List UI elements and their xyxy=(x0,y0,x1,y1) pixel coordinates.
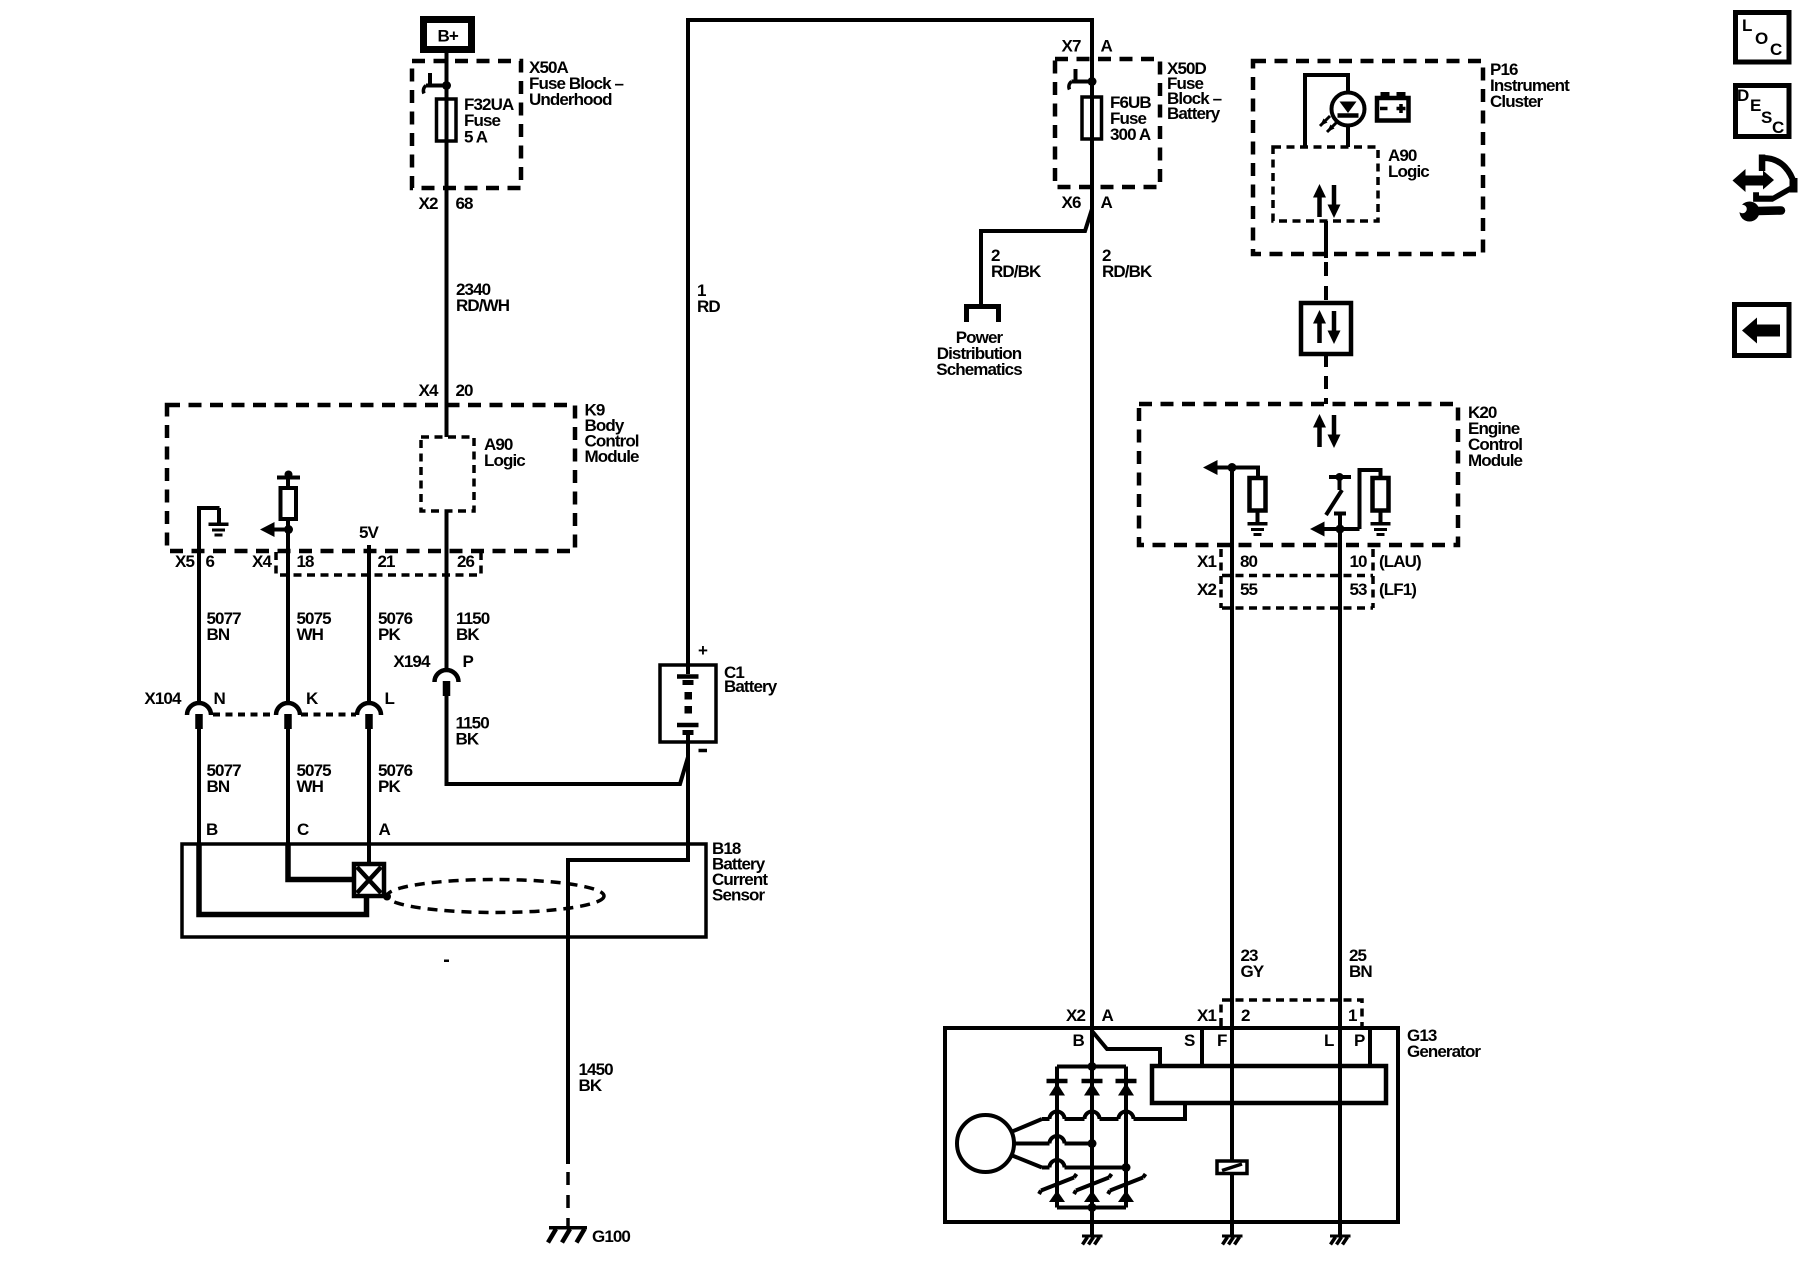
avalanche diode D6 (right lower) xyxy=(1108,1174,1146,1202)
svg-text:L: L xyxy=(385,689,395,708)
resistor inside K9 (pin 18 pull-up) xyxy=(286,477,290,530)
svg-text:BK: BK xyxy=(456,730,480,749)
bridge verticals xyxy=(1055,1067,1059,1208)
svg-text:A: A xyxy=(1102,1006,1114,1025)
ellipse end blob xyxy=(383,893,391,901)
svg-text:X6: X6 xyxy=(1062,193,1081,212)
svg-text:Generator: Generator xyxy=(1407,1042,1481,1061)
svg-text:5 A: 5 A xyxy=(464,128,488,147)
sensor element X box xyxy=(354,864,384,896)
svg-text:18: 18 xyxy=(297,552,315,571)
svg-text:Sensor: Sensor xyxy=(712,886,766,905)
fuse F32UA xyxy=(437,99,457,141)
rectifier diode D3 (right upper) xyxy=(1116,1081,1137,1096)
svg-text:PK: PK xyxy=(378,777,401,796)
svg-text:Underhood: Underhood xyxy=(529,90,612,109)
svg-text:X1: X1 xyxy=(1197,552,1216,571)
svg-text:300 A: 300 A xyxy=(1110,125,1151,144)
svg-text:6: 6 xyxy=(206,552,215,571)
svg-text:A: A xyxy=(1101,37,1113,56)
wire 1150 BK upper xyxy=(445,575,449,670)
svg-text:X2: X2 xyxy=(1066,1006,1085,1025)
reroute arrows + wrench icon xyxy=(1730,155,1798,222)
svg-text:RD/BK: RD/BK xyxy=(1102,262,1153,281)
stator winding circle xyxy=(957,1115,1014,1172)
wire 1150 BK lower to battery minus xyxy=(447,695,689,784)
dashed connector tie line X104 xyxy=(213,713,356,717)
svg-text:O: O xyxy=(1755,29,1768,48)
fuse block X50A dashed box xyxy=(412,61,521,188)
B- lead to case ground xyxy=(1090,1208,1094,1226)
svg-text:X4: X4 xyxy=(419,381,439,400)
svg-text:B+: B+ xyxy=(438,27,459,46)
avalanche diode D5 (middle lower) xyxy=(1074,1174,1112,1202)
svg-text:WH: WH xyxy=(297,777,324,796)
svg-text:X2: X2 xyxy=(419,194,438,213)
branch wire to power distribution xyxy=(981,209,1092,305)
svg-text:GY: GY xyxy=(1241,962,1265,981)
rectifier diode D1 (left upper) xyxy=(1047,1081,1068,1096)
svg-text:5V: 5V xyxy=(359,523,380,542)
svg-text:10: 10 xyxy=(1350,552,1368,571)
connector X104 cavity L xyxy=(357,703,381,729)
fuse F6UB xyxy=(1082,97,1102,139)
svg-text:L: L xyxy=(1742,16,1752,35)
dashed sensing ellipse xyxy=(387,880,604,913)
stray mark xyxy=(444,960,449,963)
svg-text:20: 20 xyxy=(456,381,474,400)
svg-text:RD: RD xyxy=(697,297,720,316)
A90 Logic dashed box (BCM) xyxy=(421,437,474,511)
wire 5075 WH upper xyxy=(286,530,290,704)
svg-text:C: C xyxy=(1772,118,1784,137)
BCM bottom connector row xyxy=(276,552,481,575)
svg-text:F: F xyxy=(1217,1031,1227,1050)
svg-text:21: 21 xyxy=(378,552,396,571)
svg-text:S: S xyxy=(1184,1031,1195,1050)
svg-text:Module: Module xyxy=(1468,451,1523,470)
svg-text:C: C xyxy=(1770,40,1782,59)
svg-text:P: P xyxy=(463,652,474,671)
svg-text:(LF1): (LF1) xyxy=(1379,580,1416,599)
A90 Logic dashed box (cluster) xyxy=(1273,147,1378,221)
svg-text:2: 2 xyxy=(1241,1006,1250,1025)
svg-text:Module: Module xyxy=(585,447,640,466)
arrow to left at pin 18 node xyxy=(260,522,275,537)
generator box xyxy=(945,1028,1398,1222)
svg-text:+: + xyxy=(698,641,708,660)
svg-text:Battery: Battery xyxy=(724,677,778,696)
B+ terminal box xyxy=(424,20,472,50)
K20 right branch: driver switch, resistor to ground xyxy=(1329,475,1351,479)
L wire through regulator to ground xyxy=(1338,1028,1342,1225)
ground G100 xyxy=(548,1228,587,1243)
svg-text:80: 80 xyxy=(1240,552,1258,571)
K9 Body Control Module dashed box xyxy=(167,405,575,551)
wire 5077 BN upper xyxy=(197,551,201,703)
F wire through regulator to field coil and ground xyxy=(1230,1028,1234,1161)
fuse block X50D dashed box xyxy=(1055,59,1160,187)
field winding xyxy=(1217,1161,1247,1174)
svg-text:X194: X194 xyxy=(393,652,431,671)
P terminal stub xyxy=(1368,1028,1372,1066)
battery telltale icon xyxy=(1377,98,1409,121)
svg-text:BN: BN xyxy=(207,625,230,644)
B terminal branch to regulator xyxy=(1092,1031,1160,1066)
svg-text:55: 55 xyxy=(1240,580,1258,599)
svg-text:BK: BK xyxy=(456,625,480,644)
LOC button xyxy=(1736,13,1790,63)
serial data wire to K20 xyxy=(1324,354,1328,404)
voltage regulator block xyxy=(1152,1066,1386,1103)
back button xyxy=(1735,305,1790,356)
serial data gateway box xyxy=(1301,303,1351,354)
S terminal stub xyxy=(1200,1028,1204,1066)
K20 left branch: arrow, node, resistor to ground xyxy=(1203,460,1218,475)
off-page bracket xyxy=(967,307,999,323)
svg-text:Logic: Logic xyxy=(1388,162,1429,181)
svg-text:(LAU): (LAU) xyxy=(1379,552,1421,571)
battery C1 xyxy=(660,665,716,742)
svg-text:S: S xyxy=(1761,108,1772,127)
svg-text:WH: WH xyxy=(297,625,324,644)
wire B+ to BCM A90 (2340 RD/WH) xyxy=(445,53,449,437)
wire 5076 PK upper xyxy=(367,545,371,703)
svg-text:Logic: Logic xyxy=(484,451,525,470)
svg-text:X2: X2 xyxy=(1197,580,1216,599)
wires 5077/5075/5076 lower xyxy=(197,728,201,844)
rectifier diode D2 (middle upper) xyxy=(1082,1081,1103,1096)
serial data wire down xyxy=(1324,221,1328,258)
svg-text:Schematics: Schematics xyxy=(936,360,1022,379)
svg-text:1: 1 xyxy=(1348,1006,1357,1025)
svg-text:X104: X104 xyxy=(144,689,182,708)
svg-text:D: D xyxy=(1737,86,1749,105)
svg-text:X5: X5 xyxy=(175,552,194,571)
ECM connector rows X1/X2 xyxy=(1221,549,1373,608)
wire 1 RD : B+ bus xyxy=(688,20,1092,1028)
svg-text:BK: BK xyxy=(579,1076,603,1095)
svg-text:N: N xyxy=(214,689,226,708)
svg-text:X7: X7 xyxy=(1062,37,1081,56)
svg-text:68: 68 xyxy=(456,194,474,213)
serial arrows inside K20 xyxy=(1313,414,1341,448)
svg-text:26: 26 xyxy=(457,552,475,571)
cluster internal wires xyxy=(1305,75,1348,147)
serial arrows inside cluster A90 xyxy=(1313,184,1341,218)
battery minus wire through B18 xyxy=(568,742,688,1164)
B18 Battery Current Sensor box xyxy=(182,844,706,937)
stator phase 1 to regulator S sense xyxy=(1011,1119,1042,1132)
wire 25 BN xyxy=(1338,529,1342,1028)
stator phase 2 xyxy=(1014,1142,1092,1146)
svg-text:RD/WH: RD/WH xyxy=(456,296,510,315)
stator phase 3 xyxy=(1011,1155,1042,1168)
svg-text:X1: X1 xyxy=(1197,1006,1216,1025)
connector X104 cavity K xyxy=(276,703,300,729)
svg-text:B: B xyxy=(206,820,218,839)
svg-text:X4: X4 xyxy=(252,552,272,571)
avalanche diode D4 (left lower) xyxy=(1039,1174,1077,1202)
ground branch inside K9 (pin 6) xyxy=(199,508,220,551)
svg-text:53: 53 xyxy=(1350,580,1368,599)
DESC button xyxy=(1736,86,1790,137)
svg-text:BN: BN xyxy=(1349,962,1372,981)
wire A90 to pin 26 xyxy=(445,511,449,671)
svg-text:B: B xyxy=(1073,1031,1085,1050)
svg-text:K: K xyxy=(306,689,319,708)
internal wiring of B18 xyxy=(199,844,367,915)
svg-text:Cluster: Cluster xyxy=(1490,92,1544,111)
svg-text:BN: BN xyxy=(207,777,230,796)
fuse holder hook X50D xyxy=(1069,69,1097,90)
svg-text:C: C xyxy=(297,820,309,839)
svg-text:PK: PK xyxy=(378,625,401,644)
svg-text:A: A xyxy=(1101,193,1113,212)
fuse holder hook X50A xyxy=(423,73,451,94)
generator X1 dashed connector box xyxy=(1221,1000,1362,1026)
wire 23 GY xyxy=(1230,468,1234,1029)
svg-text:P: P xyxy=(1354,1031,1365,1050)
svg-text:G100: G100 xyxy=(592,1227,630,1246)
rectifier bridge rails xyxy=(1057,1065,1126,1069)
svg-text:E: E xyxy=(1750,96,1761,115)
svg-text:A: A xyxy=(379,820,391,839)
svg-text:Battery: Battery xyxy=(1167,104,1221,123)
telltale LED xyxy=(1332,93,1365,126)
svg-text:L: L xyxy=(1324,1031,1334,1050)
svg-text:RD/BK: RD/BK xyxy=(991,262,1042,281)
